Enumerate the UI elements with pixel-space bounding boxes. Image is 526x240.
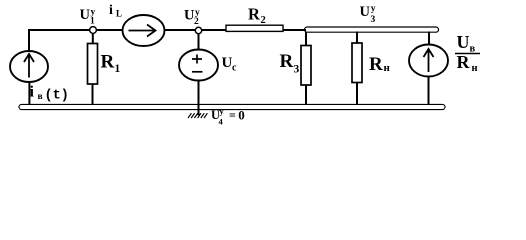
controlled source Uv/Rn circle [409,45,448,77]
wire R1 to rail [92,82,94,105]
node U2 [195,27,201,33]
voltage source Uc circle [179,50,218,81]
wire U2 node down to Uc [198,31,200,52]
svg-text:R: R [248,5,261,24]
dependent source i_L circle [123,15,165,46]
svg-text:у: у [91,8,96,18]
svg-text:U: U [222,55,233,71]
svg-text:2: 2 [261,15,266,26]
svg-text:R: R [457,52,471,72]
svg-text:U: U [457,32,470,52]
node U1 [90,27,97,34]
wire bus to R3 [305,32,307,49]
svg-text:R: R [101,52,115,73]
svg-text:0: 0 [238,108,245,123]
svg-text:с: с [232,63,237,74]
svg-text:R: R [280,51,294,72]
Uc plus sign [192,55,202,64]
svg-text:3: 3 [371,15,376,25]
wire top-left corner to i_L [29,30,123,53]
resistor R3 [301,46,311,86]
svg-text:L: L [116,8,122,18]
resistor R1 [88,44,98,85]
svg-text:i: i [30,84,35,101]
current source i_v(t) circle [10,51,48,82]
svg-text:=: = [229,108,236,122]
right source arrow [424,49,434,72]
wire i_L to R2 [164,29,226,31]
wire Uc to rail and ground stub [198,79,200,115]
wire U1 node down to R1 [92,30,94,46]
svg-text:1: 1 [90,17,95,27]
svg-text:(t): (t) [45,89,69,104]
wire R3 to rail [305,83,307,105]
svg-text:у: у [371,4,376,14]
svg-text:у: у [195,8,200,18]
wire Rn to rail [356,81,358,105]
Uc minus sign [192,71,203,73]
svg-text:i: i [109,3,113,18]
current source i_v(t) arrow [24,54,34,78]
svg-text:в: в [38,92,43,102]
resistor R2 [226,25,283,31]
ground hatching [188,113,207,118]
svg-text:н: н [472,63,478,74]
svg-text:2: 2 [194,17,199,27]
svg-text:U: U [80,7,91,23]
svg-text:1: 1 [115,63,121,75]
node bus U3 (top pill) [305,27,439,32]
svg-text:U: U [360,4,371,20]
svg-text:н: н [384,62,391,74]
wire right source to rail [428,74,430,105]
wire R2 to bus [283,29,306,31]
wire bus to right source [428,32,430,48]
wire bus to Rn [356,32,358,46]
wire left source to rail [28,80,30,105]
svg-text:3: 3 [294,64,300,76]
resistor Rn [352,43,362,83]
i_L arrow [129,25,156,37]
svg-text:R: R [369,54,383,75]
ground rail (bottom pill) [19,104,445,109]
